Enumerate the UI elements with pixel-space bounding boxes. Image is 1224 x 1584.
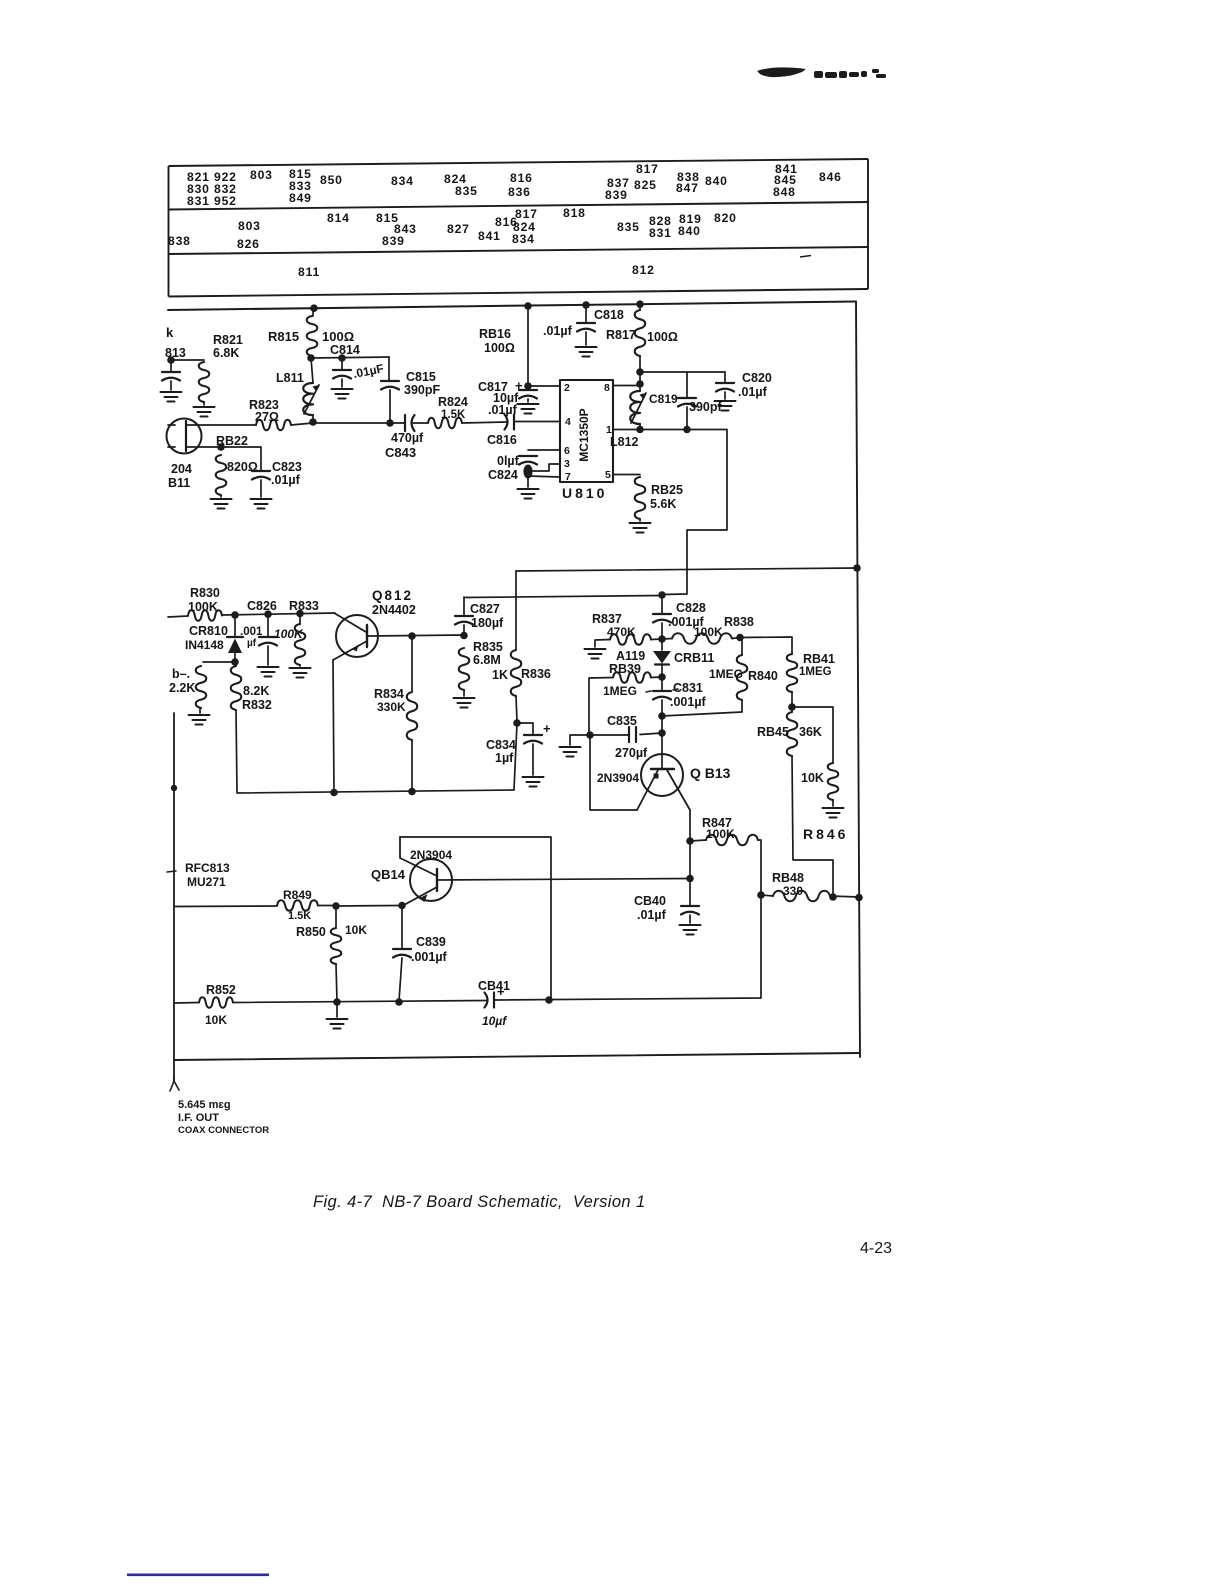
ground C823 [251, 499, 272, 509]
wire C835 left [590, 734, 629, 736]
ground C840 [680, 925, 701, 935]
wire emitter return [590, 735, 637, 810]
resistor R835 [459, 648, 470, 690]
svg-text:6: 6 [564, 445, 570, 457]
resistor R852 [199, 997, 233, 1008]
wire CR811 to node [661, 664, 663, 676]
logo swoosh smudge [757, 67, 806, 77]
capacitor C841 [485, 993, 495, 1008]
capacitor C840 [681, 906, 699, 915]
wire R841 to node [791, 692, 793, 712]
wire input stub to R830 [168, 616, 188, 617]
wire C816 to U810 pin4 [514, 421, 560, 423]
wire L811 node to C843 [313, 422, 405, 424]
svg-text:.001µf: .001µf [670, 695, 707, 709]
wire U810 pin3 [533, 464, 560, 471]
svg-text:820: 820 [714, 211, 737, 225]
wire node to CR811 [661, 639, 663, 650]
svg-text:L812: L812 [610, 435, 639, 449]
node R841 R845 [788, 703, 796, 711]
wire L812 top [639, 384, 641, 391]
wire Q813 collector down [689, 810, 691, 840]
svg-text:MC1350P: MC1350P [577, 408, 591, 461]
capacitor C815 plates [381, 381, 399, 390]
wire C827 to C828 node [464, 596, 662, 598]
capacitor C814 [333, 370, 351, 379]
wire R846 to ground [832, 800, 834, 806]
wire node to R848 [761, 895, 773, 896]
node CR810 bottom [231, 658, 239, 666]
capacitor C831 plates [653, 691, 671, 700]
node C826 [264, 610, 272, 618]
wire node to R834 [411, 636, 413, 692]
svg-text:100K: 100K [274, 627, 304, 641]
svg-text:COAX CONNECTOR: COAX CONNECTOR [178, 1125, 269, 1136]
wire C834 to ground [532, 744, 534, 775]
svg-text:1MEG: 1MEG [709, 667, 743, 681]
wire C828 bottom [661, 623, 663, 638]
svg-text:CRB11: CRB11 [674, 651, 714, 665]
wire node to R838 [662, 638, 672, 641]
svg-text:I.F. OUT: I.F. OUT [178, 1112, 219, 1124]
wire 813 to R821 [171, 359, 204, 361]
svg-text:L811: L811 [276, 371, 304, 385]
svg-text:2N3904: 2N3904 [410, 848, 452, 862]
wire CR810 node left [203, 661, 235, 663]
node R817 bottom [636, 368, 644, 376]
node C835 Q813 [658, 729, 666, 737]
wire U810 pin6 [528, 449, 560, 451]
svg-text:834: 834 [512, 232, 535, 246]
ground R833 [290, 668, 311, 678]
capacitor C824 [519, 456, 537, 465]
component location table frame [169, 159, 869, 297]
node left vertical [171, 785, 177, 791]
wire RFC813 leader tick [167, 871, 176, 872]
svg-text:835: 835 [617, 220, 640, 234]
capacitor C827 [455, 616, 473, 625]
svg-text:A119: A119 [616, 649, 645, 663]
svg-text:270µf: 270µf [615, 746, 648, 760]
svg-text:.001µf: .001µf [411, 950, 448, 964]
wire R837 to node [651, 638, 662, 641]
svg-text:k: k [166, 325, 174, 340]
wire C819 bottom [686, 407, 688, 429]
svg-text:180µf: 180µf [471, 616, 504, 630]
svg-text:10K: 10K [205, 1013, 227, 1027]
svg-text:C843: C843 [385, 445, 416, 460]
svg-text:R821: R821 [213, 333, 243, 347]
svg-text:2: 2 [564, 382, 570, 394]
wire Q812 collector [367, 635, 464, 636]
svg-text:.01µf: .01µf [488, 403, 518, 417]
svg-text:5: 5 [605, 469, 611, 481]
svg-text:816: 816 [510, 171, 533, 185]
resistor R837 [610, 634, 651, 645]
svg-text:36K: 36K [799, 725, 822, 739]
wire C817 to ground [527, 399, 529, 402]
node L811 bottom [309, 418, 317, 426]
resistor 2.2K (cut label b..) [196, 666, 207, 708]
svg-text:835: 835 [455, 184, 478, 198]
wire Q811 to R823 [186, 424, 256, 426]
wire C839 to R852 line [399, 958, 402, 1001]
svg-text:825: 825 [634, 178, 657, 192]
wire node to C835 [640, 733, 662, 735]
node right edge AGC [853, 564, 861, 572]
node bus R817 [636, 300, 644, 308]
svg-text:10µf: 10µf [482, 1014, 507, 1028]
svg-text:8.2K: 8.2K [243, 684, 269, 698]
wire to C831 [661, 677, 663, 690]
node pin8 L812 top [636, 380, 644, 388]
wire R852 to C841 [233, 1001, 486, 1003]
svg-text:838: 838 [168, 234, 191, 248]
wire C818 to ground [585, 332, 587, 345]
svg-text:840: 840 [678, 224, 701, 238]
svg-text:4-23: 4-23 [860, 1240, 892, 1257]
svg-text:C834: C834 [486, 738, 516, 752]
svg-text:CR810: CR810 [189, 624, 228, 638]
wire C831 node into Q813 [661, 716, 663, 769]
capacitor C826 plates [259, 637, 277, 646]
svg-text:R838: R838 [724, 615, 754, 629]
wire to C823 [221, 447, 261, 470]
node Q812 emitter bus [330, 789, 338, 797]
svg-text:100Ω: 100Ω [484, 341, 515, 355]
wire C831 bottom [661, 700, 663, 715]
svg-text:811: 811 [298, 265, 320, 279]
wire Q814 emitter diag [403, 887, 437, 906]
wire cap to ground [170, 381, 172, 390]
svg-text:1.5K: 1.5K [441, 409, 466, 421]
svg-text:CB40: CB40 [634, 894, 666, 908]
svg-text:R850: R850 [296, 925, 326, 939]
svg-text:MU271: MU271 [187, 875, 226, 889]
wire C827 to node [463, 625, 465, 635]
wire left vertical to R852 [174, 1002, 199, 1005]
svg-text:831: 831 [649, 226, 672, 240]
node bus C818 [582, 301, 590, 309]
node C835 R839 emitter [586, 731, 594, 739]
svg-text:R834: R834 [374, 687, 404, 701]
svg-text:952: 952 [214, 194, 237, 208]
wire U810 pin7 [528, 476, 560, 477]
resistor R830 [188, 610, 222, 621]
ground C817 [518, 404, 539, 414]
node R815 bottom [307, 354, 315, 362]
svg-text:+: + [543, 721, 551, 736]
wire to C828 [661, 595, 663, 613]
svg-text:470K: 470K [607, 625, 636, 639]
svg-text:C823: C823 [272, 460, 302, 474]
wire U810 pin5 [613, 474, 640, 476]
wire Q811 stub top [168, 424, 175, 426]
svg-text:10K: 10K [801, 771, 824, 785]
wire Q811 base to R822 node [186, 446, 221, 448]
svg-text:850: 850 [320, 173, 343, 187]
wire right edge vertical [856, 302, 860, 1058]
svg-text:834: 834 [391, 174, 414, 188]
wire bus to R817 [639, 304, 641, 310]
wire node to ground [570, 735, 590, 745]
transistor Q814 2N3904 [410, 859, 452, 901]
svg-text:RB48: RB48 [772, 871, 804, 885]
svg-text:.01µf: .01µf [738, 385, 768, 399]
wire L811 bottom [312, 415, 314, 422]
svg-text:841: 841 [478, 229, 501, 243]
resistor R815 [307, 316, 318, 356]
ground C824 [518, 489, 539, 499]
ground R837 [585, 649, 606, 659]
svg-text:7: 7 [565, 471, 571, 483]
svg-text:470µf: 470µf [391, 431, 424, 445]
resistor R821 [199, 362, 210, 402]
node C839 emitter [398, 902, 406, 910]
svg-text:100K: 100K [694, 625, 723, 639]
wire R840 top [740, 638, 742, 656]
svg-text:840: 840 [705, 174, 728, 188]
node C814 [338, 354, 346, 362]
node C815 bottom [386, 419, 394, 427]
node R822 [217, 443, 225, 451]
svg-text:1.5K: 1.5K [288, 910, 311, 922]
wire Q812 base diag [335, 614, 366, 633]
ground 2.2K [189, 715, 210, 725]
svg-text:1µf: 1µf [495, 751, 514, 765]
svg-text:C839: C839 [416, 935, 446, 949]
wire Q813 collector diag [667, 770, 690, 810]
svg-text:µf: µf [247, 638, 257, 649]
node R838 R840 R841 [736, 634, 744, 642]
svg-text:839: 839 [605, 188, 628, 202]
wire node to R847 [690, 840, 706, 841]
svg-text:R849: R849 [283, 888, 312, 902]
wire bus to R815 [312, 308, 314, 316]
svg-text:817: 817 [515, 207, 538, 221]
wire R836 bottom [516, 696, 517, 722]
svg-text:R852: R852 [206, 983, 236, 997]
resistor R836 [511, 650, 522, 696]
svg-text:.001: .001 [240, 626, 263, 638]
ground C813 [161, 392, 182, 402]
wire to C813 cap [170, 360, 172, 371]
svg-text:.01µf: .01µf [271, 473, 301, 487]
wire R830 to Q812 base [222, 613, 335, 615]
wire C820 to ground [724, 392, 726, 399]
wire C824 to ground [527, 477, 529, 487]
wire node to C839 [401, 906, 403, 949]
wire to C814 [341, 358, 343, 369]
node Q814 feedback [545, 996, 553, 1004]
wire R847 to R848 node [758, 840, 761, 894]
resistor R849 [277, 900, 318, 911]
svg-text:803: 803 [250, 168, 273, 182]
wire node to ground [336, 1002, 338, 1017]
logo text smudge [814, 69, 886, 78]
wire to C827 [463, 597, 465, 615]
svg-text:b–.: b–. [172, 667, 190, 681]
wire R838 right [732, 638, 740, 639]
wire R845 to output node [792, 756, 833, 897]
node C831 R840 [658, 712, 666, 720]
capacitor C813 (left edge) [162, 372, 180, 381]
wire bottom return line [174, 1053, 860, 1060]
wire node to R850 [335, 906, 337, 928]
svg-text:814: 814 [327, 211, 350, 225]
wire Q811 stub bottom [168, 446, 175, 448]
wire 2.2K to ground [199, 708, 201, 713]
wire left vertical to R849 [174, 905, 277, 908]
svg-text:C819: C819 [649, 392, 678, 406]
svg-text:100K: 100K [706, 827, 735, 841]
svg-text:C820: C820 [742, 371, 772, 385]
capacitor C819 plates [678, 398, 696, 407]
svg-text:Fig. 4-7 NB-7 Board Schematic: Fig. 4-7 NB-7 Board Schematic, Version 1 [313, 1193, 646, 1211]
svg-text:812: 812 [632, 263, 655, 277]
svg-text:3: 3 [564, 458, 570, 470]
svg-text:R836: R836 [521, 667, 551, 681]
wire Q814 feedback box [400, 837, 551, 999]
node R834 bus [408, 788, 416, 796]
capacitor C817 [519, 390, 537, 399]
wire R839 to C835 node [589, 678, 613, 735]
svg-text:CB41: CB41 [478, 979, 510, 993]
wire C814 to ground [341, 379, 343, 387]
svg-text:R833: R833 [289, 599, 319, 613]
node bus R815 [310, 304, 318, 312]
wire to C834 [517, 723, 533, 734]
wire R824 to C816 [462, 422, 506, 423]
svg-text:2N4402: 2N4402 [372, 603, 416, 617]
resistor R817 [635, 310, 646, 356]
svg-text:Q812: Q812 [372, 588, 413, 603]
wire bus to C817 node [527, 306, 529, 385]
svg-text:1MEG: 1MEG [799, 666, 832, 678]
node C827 R835 [460, 632, 468, 640]
svg-text:8: 8 [604, 382, 610, 394]
node C839 bottom [395, 998, 403, 1006]
wire C840 stem [689, 841, 691, 905]
resistor R839 [613, 672, 651, 683]
ground R850 R852 [327, 1019, 348, 1029]
wire R834 to mid bus [411, 740, 413, 791]
svg-text:330K: 330K [377, 700, 406, 714]
svg-text:5.6K: 5.6K [650, 497, 676, 511]
svg-text:QB14: QB14 [371, 867, 406, 882]
svg-text:RFC813: RFC813 [185, 861, 230, 875]
svg-text:RB45: RB45 [757, 725, 789, 739]
svg-text:C826: C826 [247, 599, 277, 613]
wire U810 pin1 [613, 429, 640, 431]
node R850 [332, 902, 340, 910]
wire node to mid bus [514, 723, 517, 790]
svg-text:C814: C814 [330, 343, 360, 357]
svg-text:R815: R815 [268, 329, 299, 344]
node Q814 collector C840 [686, 875, 694, 883]
svg-text:R835: R835 [473, 640, 503, 654]
svg-text:C828: C828 [676, 601, 706, 615]
wire to C815 [388, 357, 390, 380]
wire node to R846 [792, 707, 833, 763]
wire R822 to ground [220, 495, 222, 497]
svg-text:Q B13: Q B13 [690, 765, 731, 781]
svg-text:2N3904: 2N3904 [597, 771, 639, 785]
svg-text:R830: R830 [190, 586, 220, 600]
svg-text:R837: R837 [592, 612, 622, 626]
svg-text:.01µf: .01µf [637, 908, 667, 922]
svg-text:RB22: RB22 [216, 434, 248, 448]
wire R837 to ground [595, 640, 610, 648]
svg-text:5.645 mɛɡ: 5.645 mɛɡ [178, 1099, 231, 1111]
svg-text:R824: R824 [438, 395, 468, 409]
resistor R825 [635, 477, 646, 519]
wire CR810 to node [234, 653, 236, 661]
wire L812 bottom [639, 424, 641, 429]
svg-text:6.8K: 6.8K [213, 346, 239, 360]
wire R839 to node [651, 676, 662, 679]
wire C820 stem [724, 372, 726, 382]
svg-text:827: 827 [447, 222, 470, 236]
node C824 blob [523, 465, 532, 479]
wire to R841 [740, 637, 792, 654]
wire node to R840 [662, 700, 742, 716]
wire to R833 [299, 613, 301, 624]
wire C823 to ground [260, 480, 262, 497]
svg-text:10K: 10K [345, 923, 367, 937]
node C828 top [658, 591, 666, 599]
wire Q812 emitter to mid bus [333, 660, 334, 792]
wire R823 to L811 node [291, 423, 313, 425]
ground R825 [630, 523, 651, 533]
node C819 bottom [683, 426, 691, 434]
wire Q813 emitter diag [637, 770, 658, 810]
node C817 [524, 382, 532, 390]
wire R815 to C814 C815 [311, 357, 389, 358]
wire Q814 collector [437, 879, 690, 881]
svg-text:R832: R832 [242, 698, 272, 712]
node bus C817 [524, 302, 532, 310]
wire C815 to node [389, 390, 391, 422]
ground R846 [823, 808, 844, 818]
table handwritten component numbers [168, 162, 842, 279]
svg-text:C831: C831 [673, 681, 703, 695]
svg-text:831: 831 [187, 194, 210, 208]
svg-text:B11: B11 [168, 476, 190, 490]
wire R825 to ground [639, 519, 641, 521]
node pin1 [636, 426, 644, 434]
resistor R848 [773, 891, 830, 902]
wire to U810 pin2 [528, 385, 560, 387]
svg-text:204: 204 [171, 462, 192, 476]
node R850 ground [333, 998, 341, 1006]
svg-text:817: 817 [636, 162, 659, 176]
svg-text:C815: C815 [406, 370, 436, 384]
wire top supply bus [168, 302, 856, 311]
svg-text:330: 330 [783, 884, 803, 898]
wire R817 to L812 node [639, 356, 641, 384]
ground R835 [454, 698, 475, 708]
svg-text:C824: C824 [488, 468, 518, 482]
bottom blue rule [127, 1574, 269, 1577]
svg-text:836: 836 [508, 185, 531, 199]
capacitor C818 [577, 323, 595, 332]
svg-text:2.2K: 2.2K [169, 681, 195, 695]
capacitor C839 plates [393, 949, 411, 958]
wire R849 to node [318, 905, 336, 907]
svg-text:C818: C818 [594, 308, 624, 322]
ground C814 [332, 389, 353, 399]
